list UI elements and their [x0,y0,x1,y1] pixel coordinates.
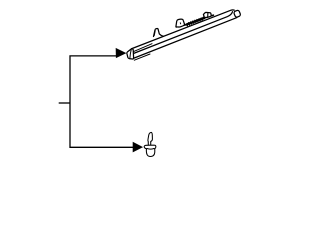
rail top facet (left) [132,44,152,52]
hatch ticks [187,17,203,26]
tab T2 inner dot [179,23,181,24]
clip stem [148,132,153,145]
arrow to rail [116,48,126,57]
rail bottom facet (left) [134,54,150,60]
clip cap [144,145,156,149]
rail flange end segment [204,15,214,18]
clip tab T1 (fin) [154,28,164,36]
clip tab T2 (rounded) [176,19,185,27]
rail assembly [127,10,241,60]
rail left end cap [127,49,134,59]
tab T1 inner line [154,30,155,35]
rail hatched band [187,18,204,24]
rail end face (right) [233,10,240,18]
arrow to clip [133,142,142,152]
clip tab T3 (flag) [203,12,211,17]
clip fastener [144,132,156,156]
wire tick [59,102,70,104]
rail flange line (tab base) [176,25,186,27]
rail left cap inner line [130,50,131,58]
rail top edge [132,10,235,49]
wire callout bracket [70,56,134,147]
tab T3 inner line [207,13,209,18]
rail mid crease line [133,12,232,54]
rail bottom edge [133,18,237,59]
clip foot [146,149,154,157]
